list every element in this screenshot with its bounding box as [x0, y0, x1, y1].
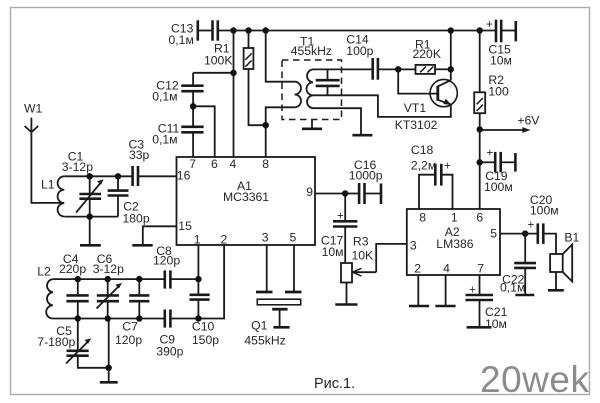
junction R1 collector	[448, 66, 454, 72]
junction rail pin4	[230, 27, 236, 33]
svg-text:2: 2	[414, 262, 421, 276]
capacitor C17 10m	[333, 194, 357, 264]
junction C19 node	[477, 159, 483, 165]
crystal Q1 455kHz	[256, 292, 302, 327]
svg-text:100K: 100K	[204, 54, 232, 68]
wire A2 pin4 to ground	[445, 275, 447, 306]
svg-text:10м: 10м	[490, 54, 512, 68]
junction C5 ground	[106, 365, 112, 371]
svg-text:KT3102: KT3102	[395, 118, 438, 132]
IC A1 MC3361 box	[177, 157, 316, 245]
potentiometer R3 10K	[335, 244, 407, 305]
capacitor C9 390p (series bottom)	[165, 310, 199, 328]
svg-text:20wek: 20wek	[480, 359, 589, 400]
svg-text:+6V: +6V	[517, 114, 540, 128]
wire pin15 to ground	[143, 226, 177, 245]
antenna W1	[25, 118, 39, 133]
svg-text:3-12p: 3-12p	[62, 160, 93, 174]
svg-text:16: 16	[177, 169, 191, 183]
wire top rail C13 to C15	[218, 30, 496, 32]
junction tank top C6	[105, 276, 111, 282]
inductor L1	[58, 176, 65, 216]
capacitor C15 10m	[496, 20, 516, 43]
svg-text:100м: 100м	[484, 180, 513, 194]
capacitor C22 0,1m	[514, 234, 536, 295]
capacitor C13 0,1m with ground bar	[198, 20, 218, 40]
junction tank top C4	[75, 276, 81, 282]
svg-text:0,1м: 0,1м	[169, 33, 194, 47]
junction C12 pin4 line	[230, 70, 236, 76]
svg-text:120p: 120p	[153, 254, 180, 268]
svg-text:5: 5	[490, 227, 497, 241]
wire tank bottom	[53, 318, 165, 320]
svg-text:MC3361: MC3361	[223, 190, 269, 204]
junction C1 bottom / ground	[87, 213, 93, 219]
svg-text:10K: 10K	[352, 249, 374, 263]
svg-text:100p: 100p	[346, 44, 373, 58]
svg-text:B1: B1	[564, 231, 579, 245]
svg-text:455kHz: 455kHz	[244, 334, 285, 348]
wire A1 pin3 down to Q1	[266, 245, 268, 292]
svg-text:W1: W1	[24, 102, 43, 116]
svg-text:180p: 180p	[123, 212, 150, 226]
wire pin4 vertical	[233, 31, 235, 158]
svg-text:VT1: VT1	[404, 101, 427, 115]
capacitor C6 (variable 3-12p)	[97, 279, 123, 318]
wire tank top	[53, 278, 165, 280]
svg-text:+: +	[486, 19, 493, 31]
svg-text:C10: C10	[192, 320, 215, 334]
svg-text:LM386: LM386	[436, 237, 473, 251]
svg-text:+: +	[337, 211, 344, 223]
capacitor C18 2,2m	[419, 164, 453, 209]
svg-text:6: 6	[476, 211, 483, 225]
T1 secondary winding	[307, 69, 314, 108]
resistor R2 100	[474, 31, 485, 130]
T1 internal capacitor	[313, 69, 373, 95]
wire A1 pin1 down to tank	[197, 245, 199, 279]
capacitor C21 10m	[466, 275, 494, 327]
wire pin8 branch to T1 primary	[266, 31, 295, 82]
ground below L2 tank	[100, 381, 118, 384]
ground below C1	[80, 217, 101, 246]
junction rail R1	[245, 27, 251, 33]
junction pin5 C20 C22	[522, 230, 528, 236]
junction C2 top	[115, 173, 121, 179]
+6V arrow	[480, 127, 531, 133]
capacitor C5 (variable 7-180p)	[66, 319, 109, 368]
wire supply vertical to A2 pin6	[479, 129, 481, 209]
capacitor C12 0,1m	[181, 73, 203, 107]
svg-text:9: 9	[306, 185, 313, 199]
svg-text:4: 4	[443, 262, 450, 276]
svg-text:0,1м: 0,1м	[152, 133, 177, 147]
svg-text:1: 1	[451, 211, 458, 225]
junction tank bottom C10	[195, 315, 201, 321]
transformer T1 dashed box	[282, 60, 342, 120]
wire A1 pin2 down to tank	[198, 245, 224, 319]
wire collector to rail	[450, 31, 452, 81]
wire A2 pin2 to ground	[417, 275, 419, 306]
svg-text:L1: L1	[41, 178, 55, 192]
inductor L2	[46, 279, 53, 318]
svg-text:4: 4	[230, 157, 237, 171]
wire A2 pin5 to node	[500, 233, 538, 235]
wire T1 secondary bottom to ground	[313, 108, 361, 135]
svg-text:+: +	[487, 148, 494, 160]
junction tank top C10 pin1	[195, 276, 201, 282]
capacitor C7 120p	[129, 279, 149, 318]
ground at pin15	[132, 244, 152, 247]
svg-text:455kHz: 455kHz	[291, 44, 332, 58]
svg-text:L2: L2	[37, 265, 51, 279]
svg-text:C18: C18	[411, 143, 434, 157]
junction C1 top	[87, 173, 93, 179]
svg-text:3: 3	[262, 231, 269, 245]
svg-text:220K: 220K	[413, 47, 441, 61]
svg-text:220p: 220p	[59, 262, 86, 276]
junction pin9 C16 C17	[342, 190, 348, 196]
junction R1 pin8 line	[263, 122, 269, 128]
svg-text:R3: R3	[353, 235, 369, 249]
junction tank top C7	[136, 276, 142, 282]
speaker B1	[548, 245, 572, 291]
capacitor C1 (variable 3-12p)	[76, 176, 104, 216]
junction +6V node	[477, 126, 483, 132]
svg-text:Рис.1.: Рис.1.	[314, 376, 355, 392]
svg-text:7-180p: 7-180p	[37, 335, 75, 349]
capacitor C10 150p	[190, 279, 210, 318]
svg-text:+: +	[444, 161, 451, 173]
wire L1 bottom to C2	[64, 216, 118, 218]
svg-text:3-12p: 3-12p	[93, 262, 124, 276]
svg-text:3: 3	[410, 239, 417, 253]
junction tank bottom C5	[75, 315, 81, 321]
svg-text:150p: 150p	[192, 333, 219, 347]
wire pin9 to node	[315, 193, 345, 195]
junction rail R2 C15	[477, 27, 483, 33]
wire tank bottom to ground	[108, 319, 110, 383]
capacitor C16 1000p	[345, 183, 381, 204]
svg-text:33p: 33p	[129, 148, 150, 162]
svg-text:0,1м: 0,1м	[152, 90, 177, 104]
T1 shield ground stub	[311, 120, 313, 129]
svg-text:1000p: 1000p	[349, 169, 383, 183]
wire L1 top to node	[64, 175, 132, 177]
junction tank bottom C7	[136, 315, 142, 321]
wire base branch	[398, 69, 438, 93]
svg-text:0,1м: 0,1м	[500, 281, 525, 295]
capacitor C11 0,1m	[181, 106, 203, 157]
svg-text:+: +	[528, 220, 535, 232]
svg-text:1: 1	[194, 233, 201, 247]
resistor R1 220K	[416, 65, 451, 74]
svg-text:2,2м: 2,2м	[411, 159, 436, 173]
wire C12 top to pin4 line	[193, 72, 233, 74]
junction C11 C12 pin6	[190, 103, 196, 109]
capacitor C2 180p	[108, 176, 129, 216]
svg-text:100: 100	[488, 85, 509, 99]
svg-text:100м: 100м	[530, 204, 559, 218]
svg-text:8: 8	[262, 157, 269, 171]
transistor VT1 KT3102	[430, 79, 457, 106]
svg-text:120p: 120p	[115, 333, 142, 347]
capacitor C19 100m	[480, 152, 516, 173]
svg-text:C7: C7	[122, 320, 138, 334]
IC A2 LM386 box	[407, 209, 500, 275]
svg-text:7: 7	[477, 262, 484, 276]
junction C14 base R1	[395, 66, 401, 72]
junction rail T1 branch	[263, 27, 269, 33]
svg-text:10м: 10м	[485, 317, 507, 331]
wire node to pin6	[193, 106, 215, 157]
svg-text:6: 6	[211, 157, 218, 171]
ground below T1 bottom lead	[352, 134, 372, 137]
capacitor C8 120p (series top)	[165, 270, 199, 288]
junction rail VT1 collector	[448, 27, 454, 33]
capacitor C4 220p	[66, 279, 88, 318]
svg-text:390p: 390p	[156, 345, 183, 359]
svg-text:10м: 10м	[322, 245, 344, 259]
svg-text:+: +	[469, 285, 476, 297]
wire A1 pin5 down to Q1	[293, 245, 295, 292]
svg-text:Q1: Q1	[251, 319, 267, 333]
wire T1 tap to emitter	[313, 95, 451, 117]
capacitor C14 100p	[373, 58, 416, 80]
resistor R1 100K	[244, 31, 266, 126]
junction tank bottom ground line	[105, 315, 111, 321]
svg-text:15: 15	[178, 219, 192, 233]
svg-text:8: 8	[419, 211, 426, 225]
capacitor C3 33p	[133, 166, 177, 186]
svg-text:2: 2	[221, 233, 228, 247]
plus signs	[337, 19, 535, 297]
capacitor C20 100m	[538, 223, 556, 254]
svg-text:5: 5	[290, 231, 297, 245]
wire W1 mast to L1 tap	[31, 132, 64, 203]
T1 primary winding	[295, 82, 301, 108]
